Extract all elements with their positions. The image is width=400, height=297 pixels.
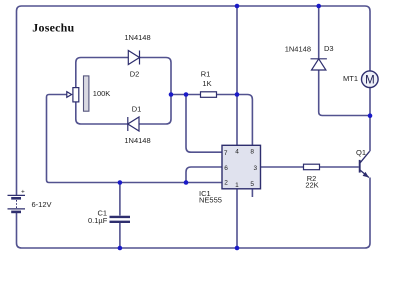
- svg-text:1N4148: 1N4148: [124, 136, 150, 145]
- svg-text:7: 7: [224, 150, 228, 157]
- svg-text:6-12V: 6-12V: [32, 200, 52, 209]
- svg-text:1N4148: 1N4148: [285, 45, 311, 54]
- svg-text:5: 5: [250, 181, 254, 188]
- svg-text:6: 6: [224, 165, 228, 172]
- svg-text:+: +: [21, 188, 25, 195]
- svg-text:1N4148: 1N4148: [124, 33, 150, 42]
- svg-text:8: 8: [250, 149, 254, 156]
- svg-text:0.1µF: 0.1µF: [88, 216, 108, 225]
- svg-text:2: 2: [224, 180, 228, 187]
- svg-text:D3: D3: [324, 44, 334, 53]
- svg-text:4: 4: [235, 149, 239, 156]
- svg-text:D1: D1: [132, 105, 142, 114]
- svg-text:22K: 22K: [305, 181, 318, 190]
- svg-text:NE555: NE555: [199, 196, 222, 205]
- svg-text:M: M: [365, 74, 375, 86]
- svg-text:3: 3: [253, 165, 257, 172]
- svg-text:1K: 1K: [202, 79, 211, 88]
- svg-text:Josechu: Josechu: [32, 21, 74, 35]
- svg-text:100K: 100K: [93, 89, 111, 98]
- svg-text:MT1: MT1: [343, 74, 358, 83]
- svg-text:R1: R1: [201, 69, 211, 78]
- svg-text:D2: D2: [130, 70, 140, 79]
- svg-text:Q1: Q1: [356, 148, 366, 157]
- svg-text:1: 1: [235, 182, 239, 189]
